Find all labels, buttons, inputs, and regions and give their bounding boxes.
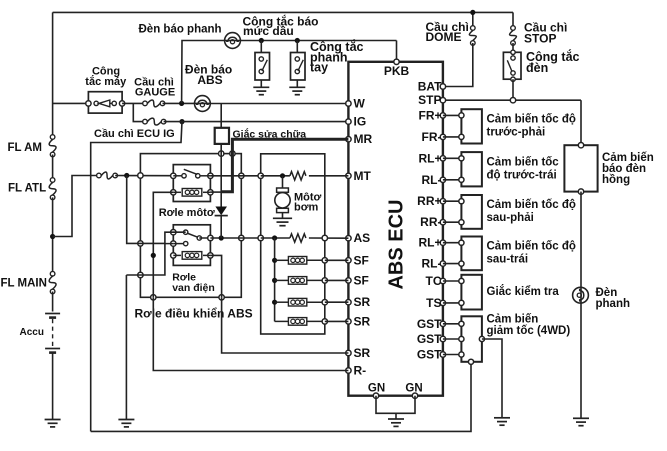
svg-text:ABS ECU: ABS ECU	[386, 199, 408, 289]
pin RR- right 7	[420, 215, 445, 229]
wire top supply bus	[53, 11, 513, 13]
motor Môtơ bơm	[275, 176, 290, 219]
svg-text:FR+: FR+	[418, 108, 441, 122]
pin GN 1	[368, 383, 385, 399]
svg-text:SF: SF	[354, 273, 369, 287]
wire AS in box	[261, 235, 349, 240]
fuse unlabeled ECU-B	[97, 172, 118, 179]
wire to brake lamp	[580, 192, 582, 296]
svg-text:FL ATL: FL ATL	[8, 183, 46, 195]
svg-text:GN: GN	[405, 383, 422, 395]
label Cầu chì ECU IG	[94, 128, 175, 140]
battery Accu	[45, 314, 60, 353]
resistor MT	[290, 172, 306, 180]
pin RL+ right 4	[418, 151, 445, 165]
ground battery	[45, 420, 61, 427]
wire diagnostic drop	[91, 122, 182, 432]
wire left battery feed	[52, 12, 54, 137]
solenoid SR2	[275, 318, 349, 326]
pin AS	[346, 231, 370, 245]
label FL MAIN	[1, 278, 47, 290]
connector speed sensor front-right	[443, 109, 482, 143]
label Cầu chì DOME	[426, 20, 469, 44]
pin FR+ right 2	[418, 108, 445, 122]
label Cảm biến tốc độ trước-phải	[487, 113, 576, 138]
pin SR	[346, 346, 371, 360]
pin GST right 13	[417, 332, 446, 346]
label Rơle van điện	[172, 272, 215, 295]
diode D1	[215, 207, 228, 216]
wire GN bracket	[376, 396, 415, 414]
pin GN 2	[405, 383, 422, 399]
connector check connector	[443, 275, 482, 310]
svg-text:RR+: RR+	[417, 194, 441, 208]
svg-text:FL MAIN: FL MAIN	[1, 278, 47, 290]
label Đèn báo phanh	[139, 24, 222, 36]
svg-text:DOME: DOME	[426, 30, 462, 44]
fuse STOP	[510, 12, 517, 45]
svg-text:MR: MR	[354, 132, 373, 146]
svg-text:Rơle điều khiển ABS: Rơle điều khiển ABS	[135, 307, 253, 321]
pin SF	[346, 253, 369, 267]
ground relay	[118, 420, 134, 427]
label Đèn phanh	[596, 287, 631, 310]
solenoid SF1	[272, 257, 348, 265]
pin BAT right 0	[418, 80, 446, 94]
svg-text:BAT: BAT	[418, 80, 442, 94]
label Đèn báo ABS	[185, 63, 232, 88]
wire coil stub	[210, 191, 221, 193]
switch Công tắc phanh tay	[291, 41, 306, 88]
lamp Đèn phanh	[573, 287, 589, 303]
wire GN ground stem	[395, 413, 397, 419]
wire W	[210, 103, 348, 105]
svg-text:GST: GST	[417, 348, 442, 362]
label Công tắc báo mức dầu	[243, 14, 319, 39]
svg-text:IG: IG	[354, 115, 367, 129]
svg-text:TC: TC	[426, 274, 442, 288]
svg-text:Đèn báo phanh: Đèn báo phanh	[139, 24, 222, 36]
fuse GAUGE	[143, 100, 165, 107]
IC ABS ECU box	[348, 62, 443, 396]
svg-text:AS: AS	[354, 231, 371, 245]
pin MT	[346, 169, 372, 183]
fusible link FL MAIN	[49, 271, 56, 293]
wire STP to brake sensor	[580, 100, 582, 145]
svg-text:Rơle môtơ: Rơle môtơ	[159, 207, 215, 219]
svg-text:hồng: hồng	[602, 174, 630, 186]
box motor actuator	[258, 154, 325, 334]
wire	[163, 102, 211, 104]
resistor AS	[290, 234, 306, 242]
svg-text:RL+: RL+	[418, 151, 441, 165]
node	[259, 38, 264, 43]
label Giắc kiểm tra	[487, 285, 560, 298]
wire giắc sửa chữa drop	[220, 104, 222, 128]
svg-text:FL AM: FL AM	[8, 142, 43, 154]
switch Công tắc báo mức dầu	[255, 41, 270, 88]
label Môtơ bơm	[294, 192, 322, 214]
wire STP	[443, 98, 581, 103]
svg-text:RR-: RR-	[420, 215, 441, 229]
svg-text:MT: MT	[354, 169, 372, 183]
label Cảm biến tốc độ trước-trái	[487, 156, 560, 181]
wire	[52, 292, 54, 312]
svg-text:TS: TS	[426, 296, 441, 310]
svg-text:SR: SR	[354, 314, 371, 328]
wire BAT	[443, 43, 473, 87]
svg-text:PKB: PKB	[384, 64, 410, 78]
svg-text:sau-phải: sau-phải	[487, 212, 534, 224]
connector deceleration sensor 4WD	[443, 316, 485, 364]
node feed junction	[124, 173, 129, 178]
pin PKB	[384, 59, 410, 78]
svg-text:độ trước-trái: độ trước-trái	[487, 169, 557, 181]
pin SR	[346, 295, 371, 309]
node solenoid rail top	[272, 235, 277, 240]
label Cảm biến giảm tốc	[487, 314, 571, 338]
wire diode line	[220, 144, 222, 207]
connector Giắc sửa chữa	[215, 128, 229, 144]
wire Đèn báo phanh feed	[182, 41, 241, 104]
wire motor relay coil left	[153, 192, 173, 297]
wire battery branch to fuse row	[53, 176, 99, 237]
svg-text:R-: R-	[354, 364, 367, 378]
pin SF	[346, 273, 369, 287]
svg-text:W: W	[354, 97, 366, 111]
fusible link FL AM	[49, 135, 56, 157]
switch Công tắc máy	[86, 92, 125, 113]
label Rơle điều khiển ABS	[135, 307, 253, 321]
svg-text:GAUGE: GAUGE	[135, 87, 175, 99]
node battery branch junction	[50, 234, 55, 239]
pin R-	[346, 364, 366, 378]
connector speed sensor rear-right	[443, 195, 482, 229]
lamp Đèn báo ABS	[195, 96, 211, 112]
solenoid SR1	[272, 298, 348, 306]
ground oil switch	[253, 87, 269, 94]
wire motor relay switch out	[210, 175, 260, 177]
svg-text:STP: STP	[418, 93, 441, 107]
label Giắc sửa chữa	[233, 128, 307, 141]
pin RL- right 9	[422, 257, 446, 271]
lamp Đèn báo phanh	[225, 33, 241, 49]
svg-text:Giắc kiểm tra: Giắc kiểm tra	[487, 285, 560, 298]
pin W	[346, 97, 366, 111]
wire IG	[164, 121, 349, 123]
wire sensor ground	[482, 339, 502, 418]
fuse DOME	[469, 10, 476, 46]
node van điện coil tap	[151, 253, 156, 258]
pin RR+ right 6	[417, 194, 445, 208]
label FL ATL	[8, 183, 46, 195]
svg-text:Accu: Accu	[20, 327, 44, 338]
pin STP right 1	[418, 93, 445, 107]
wire bottom bus	[91, 362, 471, 432]
wire	[52, 353, 54, 420]
box Rơle điều khiển ABS	[138, 151, 244, 300]
node ECU IG junction	[179, 119, 184, 124]
svg-text:tay: tay	[310, 61, 328, 75]
label Cầu chì STOP	[524, 21, 567, 46]
ground motor	[273, 218, 292, 225]
svg-text:giảm tốc (4WD): giảm tốc (4WD)	[487, 325, 571, 337]
label Công tắc phanh tay	[310, 39, 364, 75]
relay Rơle môtơ	[171, 165, 213, 202]
svg-text:Cảm biến tốc: Cảm biến tốc	[487, 156, 560, 168]
ground deceleration sensor	[494, 418, 510, 425]
svg-text:tắc máy: tắc máy	[85, 75, 127, 88]
pin MR	[346, 132, 373, 146]
label Cầu chì GAUGE	[134, 77, 175, 99]
wire	[115, 175, 173, 177]
wire	[122, 102, 145, 104]
wire R-	[153, 297, 348, 370]
svg-text:RL-: RL-	[422, 173, 442, 187]
label Accu	[20, 327, 44, 338]
label Cảm biến tốc độ sau-phải	[487, 199, 576, 224]
label Cảm biến báo đèn hồng	[602, 152, 654, 186]
wire feed to contacts	[127, 176, 165, 244]
svg-text:Cảm biến tốc độ: Cảm biến tốc độ	[487, 113, 576, 125]
svg-text:RL+: RL+	[418, 236, 441, 250]
svg-text:phanh: phanh	[596, 298, 631, 310]
wire PKB drop	[396, 41, 398, 62]
svg-text:đèn: đèn	[526, 61, 548, 75]
svg-text:bơm: bơm	[294, 202, 319, 214]
label Công tắc máy	[85, 66, 127, 89]
pin GST right 12	[417, 317, 446, 331]
svg-text:GST: GST	[417, 332, 442, 346]
svg-text:GN: GN	[368, 383, 385, 395]
node motor tap	[280, 173, 285, 178]
pin RL+ right 8	[418, 236, 445, 250]
node	[295, 38, 300, 43]
wire GAUGE row	[53, 102, 89, 104]
ground parking brake switch	[289, 87, 305, 94]
solenoid SF2	[272, 277, 348, 285]
wire oil level row	[240, 40, 396, 42]
svg-text:SR: SR	[354, 346, 371, 360]
svg-text:GST: GST	[417, 317, 442, 331]
svg-text:Cảm biến tốc độ: Cảm biến tốc độ	[487, 199, 576, 211]
ground ECU GN	[388, 419, 404, 426]
svg-text:trước-phải: trước-phải	[487, 126, 546, 138]
wire SR3	[222, 297, 349, 353]
svg-text:RL-: RL-	[422, 257, 442, 271]
svg-text:mức dầu: mức dầu	[243, 24, 294, 38]
connector speed sensor rear-left	[443, 237, 482, 271]
pin TS right 11	[426, 296, 445, 310]
wire	[52, 155, 54, 181]
wire	[52, 197, 54, 273]
pin IG	[346, 115, 366, 129]
svg-text:SF: SF	[354, 253, 369, 267]
label Công tắc đèn	[526, 49, 580, 75]
svg-text:STOP: STOP	[524, 32, 556, 46]
ground brake lamp	[573, 418, 589, 425]
fuse ECU IG	[143, 118, 166, 125]
svg-text:sau-trái: sau-trái	[487, 253, 529, 265]
pin GST right 14	[417, 348, 446, 362]
label ABS ECU	[386, 199, 408, 289]
connector Cảm biến báo đèn hồng	[564, 143, 597, 195]
wire solenoid rail	[274, 238, 276, 321]
pin RL- right 5	[422, 173, 446, 187]
relay Rơle van điện	[171, 225, 213, 266]
wire diode to AS row	[220, 216, 222, 238]
label FL AM	[8, 142, 43, 154]
node diode junction	[219, 235, 224, 240]
wire van điện contacts jumper	[126, 232, 185, 275]
pin TC right 10	[426, 274, 446, 288]
fusible link FL ATL	[49, 178, 56, 200]
pin SR	[346, 314, 371, 328]
svg-text:ABS: ABS	[197, 73, 222, 87]
connector speed sensor front-left	[443, 152, 482, 186]
label Cảm biến tốc độ sau-trái	[487, 240, 576, 265]
svg-text:Cầu chì ECU IG: Cầu chì ECU IG	[94, 128, 175, 140]
switch Công tắc đèn	[503, 43, 521, 100]
wire lamp to ground	[580, 296, 582, 418]
wire MT row	[261, 175, 349, 177]
wire van điện coil right	[210, 255, 221, 297]
wire jumper ground drop	[125, 275, 127, 420]
pin FR- right 3	[422, 130, 446, 144]
wire AS row	[210, 237, 260, 239]
svg-text:FR-: FR-	[422, 130, 442, 144]
label Rơle môtơ	[159, 207, 215, 219]
wire MR bold	[221, 139, 348, 192]
svg-text:SR: SR	[354, 295, 371, 309]
svg-text:Cảm biến tốc độ: Cảm biến tốc độ	[487, 240, 576, 252]
wire ECU IG branch	[133, 103, 145, 121]
svg-text:van điện: van điện	[172, 282, 215, 294]
node GAUGE junction	[179, 101, 184, 106]
svg-text:Cảm biến: Cảm biến	[487, 314, 539, 326]
